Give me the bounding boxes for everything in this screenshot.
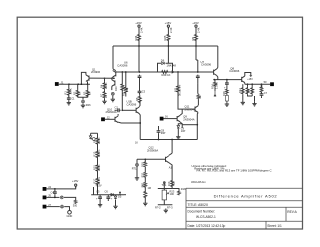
svg-text:D6: D6 [161, 59, 165, 63]
svg-text:Date: 1/27/2013 12:42:13p: Date: 1/27/2013 12:42:13p [188, 224, 226, 228]
svg-text:1K 1%: 1K 1% [98, 149, 101, 157]
svg-text:R17: R17 [92, 178, 96, 183]
svg-text:1K: 1K [247, 90, 251, 93]
svg-text:100: 100 [170, 192, 175, 196]
svg-text:2N3906: 2N3906 [91, 70, 101, 74]
svg-text:+15V: +15V [192, 21, 199, 25]
svg-text:CA3096: CA3096 [201, 63, 212, 67]
svg-text:R8: R8 [92, 139, 96, 143]
svg-text:R11: R11 [173, 87, 177, 92]
svg-text:C6: C6 [105, 189, 109, 193]
svg-text:RT1: RT1 [132, 167, 137, 170]
svg-text:C4: C4 [51, 191, 55, 195]
svg-text:+15V: +15V [72, 179, 79, 183]
svg-text:2.4K: 2.4K [197, 27, 201, 33]
svg-text:+: + [96, 198, 98, 201]
svg-text:+: + [224, 86, 226, 89]
svg-text:10P: 10P [181, 130, 186, 133]
svg-text:R2: R2 [73, 91, 77, 95]
svg-text:R6: R6 [135, 97, 139, 101]
svg-text:R9: R9 [191, 37, 195, 41]
svg-text:R22: R22 [171, 181, 175, 186]
svg-text:CA3096: CA3096 [229, 69, 240, 73]
svg-text:36.5K 1%: 36.5K 1% [177, 84, 181, 96]
svg-text:TITLE: A502X: TITLE: A502X [188, 203, 209, 207]
svg-text:36P: 36P [161, 131, 166, 135]
svg-text:R24: R24 [134, 35, 138, 40]
svg-text:C5: C5 [96, 189, 100, 193]
svg-text:C7: C7 [264, 91, 268, 95]
svg-text:510: 510 [125, 87, 129, 92]
svg-text:+15V: +15V [165, 21, 172, 25]
svg-text:C2: C2 [115, 106, 119, 110]
svg-text:2N3904A: 2N3904A [183, 118, 194, 122]
svg-text:R4: R4 [99, 84, 103, 88]
svg-text:1.58K: 1.58K [215, 82, 219, 89]
svg-text:R3: R3 [83, 91, 87, 95]
svg-text:CA3096: CA3096 [127, 102, 137, 106]
svg-text:1K: 1K [77, 92, 81, 95]
svg-text:1K 1%: 1K 1% [98, 176, 101, 184]
svg-text:R18: R18 [181, 187, 186, 191]
svg-text:R15: R15 [92, 165, 96, 170]
svg-text:50: 50 [264, 80, 267, 84]
svg-text:24.9K: 24.9K [105, 82, 108, 89]
svg-text:D5: D5 [118, 195, 122, 199]
svg-text:W-CS-A502-1: W-CS-A502-1 [196, 215, 216, 219]
svg-text:+15V: +15V [96, 184, 102, 188]
svg-text:1K: 1K [88, 92, 92, 95]
svg-text:2N3904A: 2N3904A [106, 110, 117, 114]
svg-text:Sheet: 1/1: Sheet: 1/1 [267, 224, 282, 228]
svg-text:300: 300 [73, 204, 78, 208]
svg-text:R4, R7, R8, R26, and R13 are T: R4, R7, R8, R26, and R13 are TF 1/8W 100… [197, 169, 272, 173]
svg-text:2.4K: 2.4K [140, 27, 144, 33]
svg-text:100: 100 [167, 181, 171, 186]
svg-text:100K: 100K [68, 88, 72, 94]
svg-text:CA3096: CA3096 [117, 64, 128, 68]
svg-text:+15V: +15V [135, 21, 142, 25]
svg-text:R?-3: R?-3 [167, 205, 173, 209]
svg-text:R13: R13 [92, 151, 96, 156]
svg-text:A502-diff.dsn: A502-diff.dsn [191, 181, 206, 184]
svg-text:R14: R14 [210, 84, 214, 89]
svg-text:R17: R17 [199, 94, 202, 99]
svg-text:J6: J6 [165, 115, 168, 119]
svg-text:REV:A: REV:A [287, 210, 297, 214]
svg-text:Difference Amplifier A502: Difference Amplifier A502 [214, 193, 278, 198]
svg-text:1N4148: 1N4148 [167, 64, 177, 68]
svg-text:A1: A1 [169, 166, 173, 170]
svg-text:R12: R12 [238, 88, 242, 93]
svg-text:J2: J2 [107, 115, 110, 119]
svg-text:R1: R1 [64, 91, 68, 95]
svg-text:GND: GND [67, 214, 73, 218]
svg-text:C1: C1 [71, 96, 75, 100]
svg-text:R26: R26 [86, 103, 91, 107]
svg-text:1M: 1M [148, 187, 151, 190]
svg-text:1K: 1K [135, 141, 138, 144]
svg-text:R10: R10 [114, 86, 118, 91]
svg-text:R20: R20 [142, 172, 145, 177]
svg-text:2N3906A: 2N3906A [147, 148, 158, 152]
svg-text:1K: 1K [105, 95, 108, 98]
svg-text:R29 1K: R29 1K [162, 73, 171, 77]
svg-text:Document Number:: Document Number: [188, 210, 216, 214]
svg-text:R?-2: R?-2 [155, 205, 161, 209]
svg-text:R19: R19 [142, 162, 145, 167]
svg-text:C3: C3 [142, 90, 146, 94]
svg-text:+15V: +15V [247, 78, 253, 81]
svg-text:24.9K: 24.9K [98, 137, 101, 144]
svg-text:R25: R25 [163, 35, 167, 40]
svg-text:R7: R7 [99, 93, 103, 97]
svg-text:+: + [111, 198, 113, 201]
svg-text:2.4K: 2.4K [169, 27, 173, 33]
svg-text:R31: R31 [142, 184, 147, 187]
svg-text:24.9K: 24.9K [98, 164, 101, 171]
